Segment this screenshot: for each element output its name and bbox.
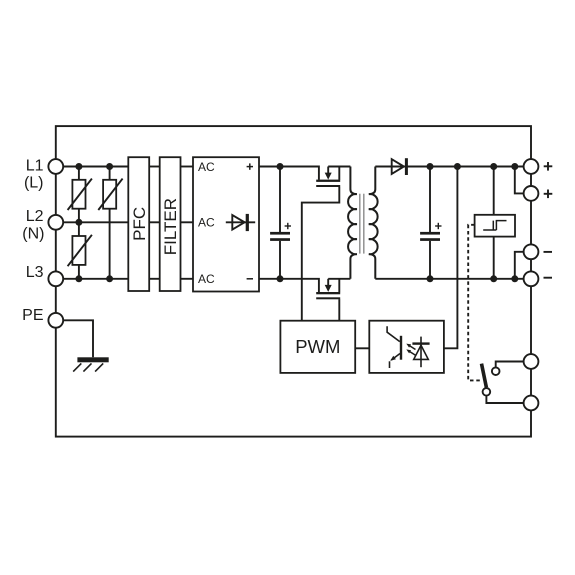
terminal L1	[48, 159, 63, 174]
svg-text:PE: PE	[22, 307, 43, 324]
capacitor C1 bulk	[270, 167, 291, 279]
terminal relay 14	[524, 396, 539, 411]
svg-text:(L): (L)	[24, 174, 44, 191]
diode D1 output rectifier	[392, 158, 408, 175]
junction dot DC-OK bottom	[490, 275, 497, 282]
rectifier plus label	[247, 163, 253, 169]
junction dot output cap top	[427, 163, 434, 170]
svg-text:PWM: PWM	[295, 336, 340, 357]
label - terminal 1	[544, 251, 553, 253]
varistor RV3 between L2 and L3	[68, 222, 92, 278]
junction dot minus terminal stub	[511, 275, 518, 282]
terminal + out 2	[524, 186, 539, 201]
terminal L3	[48, 271, 63, 286]
wire PWM to optocoupler	[355, 347, 369, 349]
svg-text:L1: L1	[26, 157, 44, 174]
junction dot L2/RV1-RV3	[75, 219, 82, 226]
wire PFC to FILTER L2	[149, 221, 160, 223]
wire stub to first - terminal	[515, 252, 524, 279]
optocoupler LED	[412, 337, 429, 368]
junction dot L3/RV2	[106, 275, 113, 282]
PWM controller block U2	[280, 321, 355, 373]
svg-text:AC: AC	[198, 272, 215, 286]
optocoupler U4	[369, 321, 444, 373]
label L2 (N)	[22, 208, 44, 243]
transformer T1 secondary winding	[369, 167, 378, 279]
junction dot DC-OK top	[490, 163, 497, 170]
label - terminal 2	[544, 277, 553, 279]
svg-text:AC: AC	[198, 216, 215, 230]
wire feedback from opto to + rail	[444, 167, 458, 349]
terminal relay 13	[524, 354, 539, 369]
svg-text:(N): (N)	[22, 226, 44, 243]
junction dot bulk cap bottom	[277, 275, 284, 282]
FILTER block	[160, 157, 181, 291]
MOSFET Q2 low side	[316, 279, 350, 321]
wire secondary - rail to output	[375, 278, 523, 280]
PFC block	[128, 157, 149, 291]
rectifier minus label	[247, 278, 253, 280]
junction dot feedback line top	[454, 163, 461, 170]
DC OK hysteresis block U3	[475, 167, 515, 279]
dashed control line DC-OK to relay	[468, 225, 481, 381]
terminal PE	[48, 313, 63, 328]
wire L1 input	[62, 166, 128, 168]
ground wire from PE	[62, 320, 93, 357]
junction dot output cap bottom	[427, 275, 434, 282]
ground symbol	[73, 357, 109, 371]
label + terminal 1	[544, 162, 553, 171]
junction dot plus terminal stub	[511, 163, 518, 170]
wire L2 input	[62, 221, 128, 223]
terminal L2	[48, 215, 63, 230]
varistor RV1 between L1 and L2	[68, 167, 92, 223]
junction dot bulk cap top	[277, 163, 284, 170]
wire stub to second + terminal	[515, 167, 524, 194]
wire L3 input	[62, 278, 128, 280]
MOSFET Q1 high side	[302, 167, 351, 321]
capacitor C2 output	[420, 167, 441, 279]
optocoupler phototransistor	[387, 326, 402, 368]
svg-text:FILTER: FILTER	[161, 198, 180, 255]
terminal - out 2	[524, 271, 539, 286]
transformer T1 primary winding	[348, 167, 357, 279]
svg-text:PFC: PFC	[130, 207, 149, 241]
wire DC+ rail from rectifier to MOSFET Q1 drain	[259, 167, 319, 180]
wire secondary + rail to output	[375, 166, 523, 168]
wire DC- rail from rectifier to MOSFET Q2 drain	[259, 279, 319, 292]
optocoupler light arrows	[406, 344, 415, 356]
terminal - out 1	[524, 244, 539, 259]
wire PFC to FILTER L1	[149, 166, 160, 168]
svg-text:L3: L3	[26, 264, 44, 281]
terminal + out 1	[524, 159, 539, 174]
relay contact switch S1	[482, 362, 524, 404]
wire FILTER to rectifier L1	[181, 166, 194, 168]
label L1 (L)	[24, 157, 44, 191]
varistor RV2 between L1 and L3	[98, 167, 122, 279]
svg-text:AC: AC	[198, 160, 215, 174]
wire PFC to FILTER L3	[149, 278, 160, 280]
svg-text:L2: L2	[26, 208, 44, 225]
wire FILTER to rectifier L2	[181, 221, 194, 223]
junction dot L1/RV2	[106, 163, 113, 170]
wire FILTER to rectifier L3	[181, 278, 194, 280]
junction dot L3/RV3	[75, 275, 82, 282]
enclosure border	[56, 126, 531, 437]
transformer core	[360, 194, 364, 254]
label + terminal 2	[544, 190, 553, 199]
junction dot L1/RV1	[75, 163, 82, 170]
rectifier diode symbol	[226, 214, 255, 231]
rectifier block U1	[193, 157, 259, 291]
